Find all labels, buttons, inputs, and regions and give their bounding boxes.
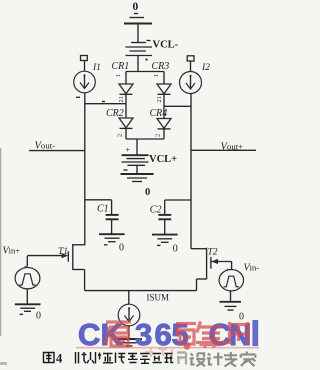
diode CR4 — [157, 106, 171, 139]
wire — [26, 289, 28, 304]
svg-text:1: 1 — [153, 74, 160, 77]
svg-text:+: + — [126, 146, 131, 155]
pin 1 of CR3 — [153, 74, 160, 77]
wire: bridge bottom rail — [126, 138, 164, 140]
gray watermark text — [177, 352, 256, 367]
svg-text:21: 21 — [156, 96, 163, 103]
watermark red remnants over caption — [145, 348, 172, 357]
wire — [128, 291, 130, 305]
pulse source Vin- — [219, 266, 243, 291]
pin 2 of CR1, pin 1 of CR2 — [118, 96, 125, 103]
svg-text:4: 4 — [56, 352, 63, 366]
node 0 label — [239, 312, 244, 323]
current source ISUM — [118, 304, 140, 326]
node 0 label — [119, 243, 124, 254]
label I2 — [201, 63, 210, 73]
svg-text:ISUM: ISUM — [147, 293, 170, 303]
pulse source Vin+ — [15, 263, 40, 289]
label ISUM — [147, 293, 170, 303]
capacitor C1 — [106, 215, 119, 219]
pin 1 of CR1 — [115, 74, 122, 77]
wire — [111, 220, 113, 234]
diode CR1 — [119, 84, 133, 94]
value label VCL+ — [149, 154, 177, 165]
node 0 label — [36, 311, 41, 322]
node 0 label — [145, 187, 150, 198]
wire: VCL+ to ground — [136, 166, 138, 174]
svg-text:C: C — [78, 317, 100, 352]
label I1 — [92, 63, 101, 73]
watermark CK365.CN — [76, 317, 259, 352]
svg-text:21: 21 — [118, 96, 125, 103]
wire — [164, 220, 166, 235]
svg-text:C1: C1 — [97, 204, 109, 215]
label Vin+ — [3, 246, 21, 257]
label C1 — [97, 204, 109, 215]
wire: right rail — [190, 93, 192, 248]
pin 2 of CR4 — [155, 134, 162, 137]
current source I1 terminal — [81, 56, 88, 61]
svg-text:CR3: CR3 — [152, 61, 170, 72]
svg-text:0: 0 — [133, 1, 139, 13]
svg-text:C2: C2 — [150, 205, 162, 216]
wire: T2 gate to Vin- — [231, 262, 233, 270]
wire: ISUM rail — [85, 290, 197, 292]
wire — [125, 94, 127, 103]
svg-text:T2: T2 — [208, 247, 218, 257]
ground (Vin+) — [15, 304, 41, 314]
ground (C1) — [99, 234, 125, 245]
battery V1 VCL- — [126, 41, 153, 56]
label CR4 — [150, 108, 168, 119]
current source I2 — [180, 72, 202, 94]
wire — [84, 61, 86, 72]
svg-text:1: 1 — [115, 74, 122, 77]
wire: Vin+ to T1 gate — [27, 253, 68, 267]
label CR3 — [152, 61, 170, 72]
figure caption: 图4 脉冲边沿调整电路 — [44, 353, 55, 363]
svg-text:Vin+: Vin+ — [3, 246, 21, 257]
ground (Vin-) — [220, 302, 242, 310]
node 0 label — [173, 244, 178, 255]
node 0 label (top ground) — [133, 1, 139, 13]
wire — [190, 61, 192, 72]
svg-text:6: 6 — [155, 317, 172, 352]
wire: T1 source down — [84, 270, 86, 291]
wire: VCL- to bridge top — [137, 56, 139, 72]
ground (C2) — [152, 235, 178, 246]
diode CR2 — [119, 104, 133, 139]
wire: bridge top rail — [126, 71, 164, 73]
ground (below VCL+) — [121, 170, 154, 182]
wire — [128, 326, 130, 339]
svg-text:VCL+: VCL+ — [149, 154, 177, 165]
wire: T2 source down — [196, 279, 198, 291]
svg-text:VCL-: VCL- — [153, 40, 179, 51]
wire — [125, 72, 127, 85]
watermark red characters — [106, 322, 251, 349]
wire: Vout+ lead — [191, 149, 256, 151]
label T1 — [58, 247, 68, 257]
wire: right mid junction — [164, 105, 191, 107]
capacitor C2 — [158, 215, 171, 219]
pin 2 of CR2 — [117, 134, 124, 137]
ground (top, rotated) — [124, 14, 152, 24]
current source I2 terminal — [187, 56, 194, 61]
label Vout+ — [221, 142, 244, 153]
label T2 — [208, 247, 218, 257]
pin 2 of CR3, pin 1 of CR4 — [156, 96, 163, 103]
wire: top ground to VCL- — [137, 24, 139, 43]
svg-text:2: 2 — [117, 134, 124, 137]
svg-text:Vin-: Vin- — [244, 263, 260, 274]
current source I1 — [74, 71, 96, 93]
svg-text:0: 0 — [36, 311, 41, 322]
label CR1 — [112, 61, 130, 72]
ground (ISUM) — [116, 339, 142, 346]
diode CR3 — [157, 72, 171, 107]
left page edge — [0, 362, 7, 365]
battery V2 VCL+ — [122, 146, 149, 166]
label CR2 — [106, 108, 124, 119]
wire: left mid junction — [76, 97, 126, 103]
value label VCL- — [153, 40, 179, 51]
wire: Vout- lead — [29, 150, 85, 152]
svg-text:CR1: CR1 — [112, 61, 130, 72]
label Vin- — [244, 263, 260, 274]
watermark red dot — [184, 343, 191, 350]
transistor T1 — [68, 244, 85, 270]
label Vout- — [35, 141, 56, 152]
svg-text:Vout-: Vout- — [35, 141, 56, 152]
svg-text:0: 0 — [119, 243, 124, 254]
transistor T2 — [191, 248, 232, 280]
svg-text:3: 3 — [135, 317, 152, 352]
wire: left rail — [84, 93, 86, 245]
junction dot — [146, 59, 148, 61]
label C2 — [150, 205, 162, 216]
svg-text:0: 0 — [173, 244, 178, 255]
wire: C1 branch — [85, 200, 112, 215]
wire — [230, 291, 232, 301]
svg-text:0: 0 — [145, 187, 150, 198]
wire: C2 branch — [165, 200, 191, 214]
wire: bridge bottom to VCL+ — [136, 139, 138, 155]
svg-text:I1: I1 — [92, 63, 101, 73]
svg-text:2: 2 — [155, 134, 162, 137]
svg-text:I2: I2 — [201, 63, 210, 73]
